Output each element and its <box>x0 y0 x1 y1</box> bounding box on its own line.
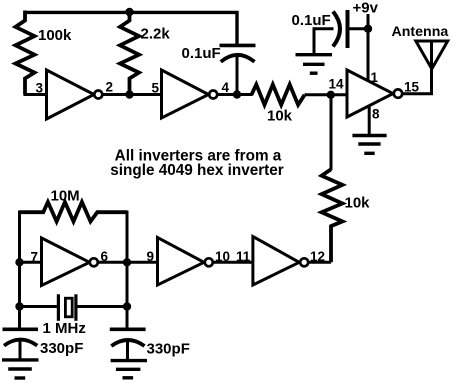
wire node 6-9 <box>98 261 158 264</box>
svg-text:+9v: +9v <box>353 0 379 17</box>
svg-text:3: 3 <box>36 81 44 96</box>
ground G1 <box>296 55 333 73</box>
wire pin 8 to ground <box>368 106 371 136</box>
junction dot node 6 <box>123 258 131 266</box>
wire R4 to pin 12 <box>310 261 332 264</box>
wire +9v supply to pin 1 <box>367 14 370 81</box>
resistor R5 10M <box>20 202 128 222</box>
capacitor C3 330pF left curved plate <box>4 340 37 346</box>
svg-text:330pF: 330pF <box>147 341 190 358</box>
ground G4 <box>111 361 147 378</box>
capacitor C1 0.1uF curved plate <box>221 55 255 62</box>
svg-text:9: 9 <box>147 249 155 264</box>
svg-text:2.2k: 2.2k <box>141 26 171 43</box>
svg-text:4: 4 <box>222 80 230 95</box>
antenna symbol <box>416 41 448 69</box>
resistor R2 2.2k <box>120 11 139 95</box>
junction dot +9v / C2 <box>364 25 372 33</box>
ground G3 <box>2 360 39 378</box>
svg-text:12: 12 <box>310 249 325 264</box>
svg-text:2: 2 <box>106 80 114 95</box>
wire node 4 <box>217 93 253 96</box>
wire C2 to +9v rail <box>348 27 368 30</box>
resistor R1 100k <box>16 11 35 95</box>
junction dot top rail / R2 <box>125 8 133 16</box>
junction dot node 4 <box>233 90 241 98</box>
wire C2 to ground <box>314 29 334 54</box>
junction dot node 14 <box>327 91 335 99</box>
wire C4 to ground <box>126 342 129 360</box>
svg-text:8: 8 <box>372 107 380 122</box>
svg-text:10M: 10M <box>51 188 80 205</box>
wire output 15 to antenna <box>402 41 432 94</box>
wire node 10-11 <box>213 261 253 264</box>
junction dot crystal right <box>123 302 131 310</box>
junction dot node 7 <box>15 258 23 266</box>
wire node 14 <box>305 93 347 96</box>
wire crystal right <box>77 305 127 308</box>
resistor R4 10k vertical <box>322 169 343 262</box>
op-amp U1F inverter pins 14-15 output <box>347 70 402 117</box>
op-amp U1E inverter pins 11-12 <box>253 237 308 286</box>
op-amp U1A inverter pins 3-2 <box>47 70 103 119</box>
svg-text:11: 11 <box>236 249 251 264</box>
wire right rail oscillator <box>126 211 129 331</box>
wire node3 input <box>24 93 47 96</box>
op-amp U1D inverter pins 9-10 <box>158 238 213 286</box>
wire left rail oscillator <box>18 211 21 331</box>
wire C3 to ground <box>19 341 22 359</box>
capacitor C1 0.1uF top plate <box>220 44 256 48</box>
capacitor C3 330pF left top plate <box>3 327 39 331</box>
wire crystal left <box>20 305 58 308</box>
capacitor C2 0.1uF decoupling straight plate <box>346 10 350 48</box>
resistor R3 10k horizontal <box>252 85 305 105</box>
svg-text:10k: 10k <box>345 195 371 212</box>
capacitor C4 330pF right curved plate <box>111 340 144 346</box>
capacitor C2 0.1uF decoupling curved plate <box>333 12 340 47</box>
wire top rail <box>24 12 238 46</box>
svg-text:0.1uF: 0.1uF <box>292 12 331 29</box>
svg-text:0.1uF: 0.1uF <box>182 45 221 62</box>
wire node 14 down <box>330 95 333 170</box>
svg-text:100k: 100k <box>38 27 72 44</box>
svg-text:330pF: 330pF <box>40 340 83 357</box>
ground G2 <box>352 136 386 154</box>
wire C1 bottom lead <box>236 54 239 95</box>
op-amp U1C inverter pins 7-6 <box>42 238 98 286</box>
wire node 2-5 <box>102 93 162 96</box>
svg-text:Antenna: Antenna <box>392 24 449 40</box>
junction dot node 2 <box>125 90 133 98</box>
svg-text:10k: 10k <box>267 108 293 125</box>
wire input 7 <box>20 261 42 264</box>
capacitor C4 330pF right top plate <box>110 327 146 331</box>
svg-text:7: 7 <box>31 250 39 265</box>
op-amp U1B inverter pins 5-4 <box>162 70 218 118</box>
svg-text:14: 14 <box>329 77 345 92</box>
svg-text:single 4049 hex inverter: single 4049 hex inverter <box>110 162 284 179</box>
svg-text:1 MHz: 1 MHz <box>43 320 86 337</box>
junction dot crystal left <box>15 302 23 310</box>
crystal Y1 1 MHz <box>58 294 76 321</box>
svg-text:5: 5 <box>152 81 160 96</box>
